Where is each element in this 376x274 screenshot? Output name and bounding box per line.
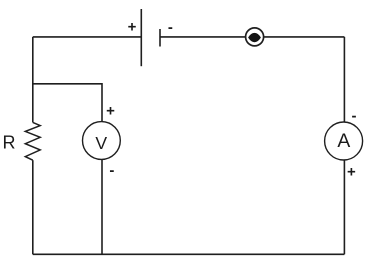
lamp L1 outer circle <box>246 28 264 46</box>
battery B1 negative plate <box>159 29 161 47</box>
svg-text:+: + <box>347 164 356 181</box>
svg-text:+: + <box>128 19 137 36</box>
svg-text:-: - <box>352 107 357 124</box>
wire left side lower <box>32 37 34 123</box>
wire bottom segment <box>33 253 345 255</box>
wire right side upper <box>343 37 345 122</box>
wire top-left segment <box>33 36 142 38</box>
svg-text:-: - <box>109 162 114 179</box>
resistor R zigzag <box>25 122 40 160</box>
wire battery to lamp <box>160 36 245 38</box>
wire right side lower <box>343 160 345 254</box>
wire inner branch top <box>33 84 102 122</box>
wire voltmeter to bottom <box>101 159 103 254</box>
wire left side upper <box>32 160 34 254</box>
svg-text:+: + <box>106 103 115 120</box>
voltmeter U1 circle <box>83 122 121 160</box>
battery B1 positive plate <box>140 9 142 66</box>
svg-text:R: R <box>3 133 16 153</box>
lamp L1 filled dot <box>248 33 261 42</box>
ammeter U2 circle <box>325 122 363 160</box>
wire lamp to top-right corner <box>264 36 345 38</box>
svg-text:A: A <box>337 131 350 152</box>
svg-text:V: V <box>95 133 107 153</box>
svg-text:-: - <box>168 19 173 36</box>
